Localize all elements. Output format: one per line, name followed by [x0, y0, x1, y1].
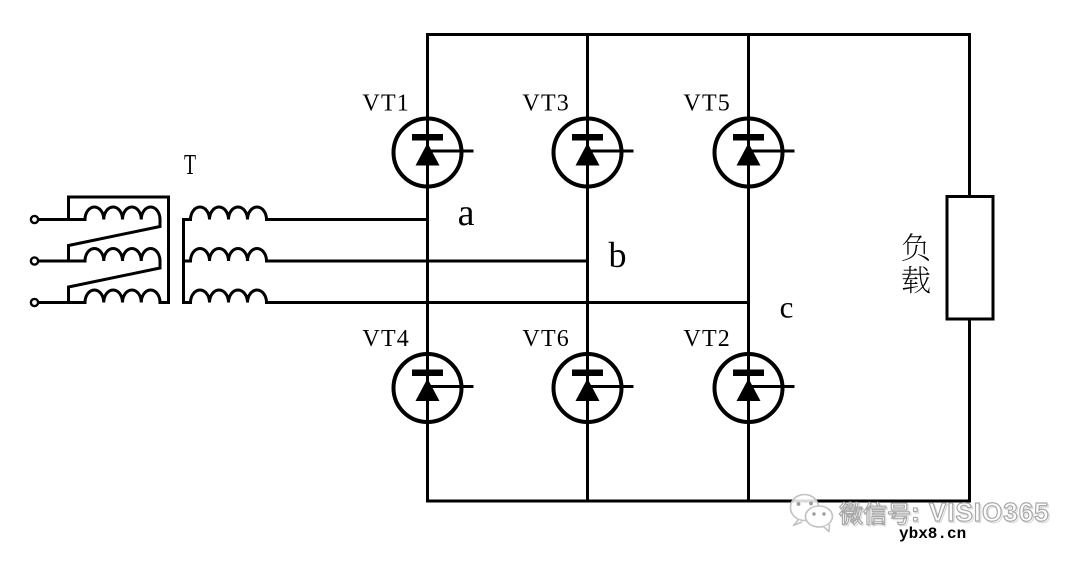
terminal 3 [31, 299, 38, 306]
wire bottom DC bus [428, 500, 970, 503]
terminal 1 [31, 216, 38, 223]
wire secondary star point [182, 220, 185, 303]
transformer T primary winding 1 [85, 207, 160, 220]
transformer T primary winding 2 [85, 248, 160, 261]
transformer T secondary winding c [184, 290, 267, 303]
svg-text:c: c [780, 290, 794, 325]
svg-text:VT3: VT3 [522, 91, 570, 117]
svg-text:ybx8.cn: ybx8.cn [899, 525, 966, 543]
wire terminal 3 lead [39, 301, 86, 304]
wire bridge leg VT1/VT4 [426, 35, 429, 502]
wire terminal 1 lead [39, 218, 86, 221]
svg-text:VT2: VT2 [683, 326, 731, 352]
wire load to bottom bus [968, 319, 971, 501]
svg-text:b: b [609, 235, 627, 275]
transformer T secondary winding b [184, 248, 267, 261]
wire phase a [267, 218, 428, 221]
svg-text:: VISIO365: : VISIO365 [911, 497, 1050, 527]
transformer T primary winding 3 [85, 290, 160, 303]
svg-text:VT5: VT5 [683, 91, 731, 117]
label 负载 [902, 233, 930, 293]
thyristor VT1 [394, 119, 474, 187]
svg-text:VT4: VT4 [362, 326, 410, 352]
thyristor VT2 [715, 354, 795, 422]
thyristor VT6 [554, 354, 634, 422]
thyristor VT5 [715, 119, 795, 187]
svg-text:a: a [458, 192, 475, 234]
watermark wechat icon [790, 495, 832, 532]
terminal 2 [31, 257, 38, 264]
thyristor VT3 [554, 119, 634, 187]
wire phase c [267, 301, 749, 304]
wire phase b [267, 260, 588, 263]
wire terminal 2 lead [39, 260, 86, 263]
watermark text 微信号: VISIO365 [839, 497, 1051, 528]
wire right rail to load [968, 35, 971, 197]
wire delta top rail [69, 197, 169, 303]
thyristor VT4 [394, 354, 474, 422]
svg-text:VT6: VT6 [522, 326, 570, 352]
wire delta link W1 to terminal 2 [69, 220, 161, 262]
load resistor 负载 [947, 197, 993, 320]
wire bridge leg VT3/VT6 [586, 35, 589, 502]
svg-text:VT1: VT1 [362, 91, 410, 117]
wire delta link W2 to terminal 3 [69, 261, 161, 303]
transformer T secondary winding a [184, 207, 267, 220]
wire top DC bus [428, 33, 970, 36]
svg-text:T: T [184, 149, 196, 181]
wire bridge leg VT5/VT2 [747, 35, 750, 502]
